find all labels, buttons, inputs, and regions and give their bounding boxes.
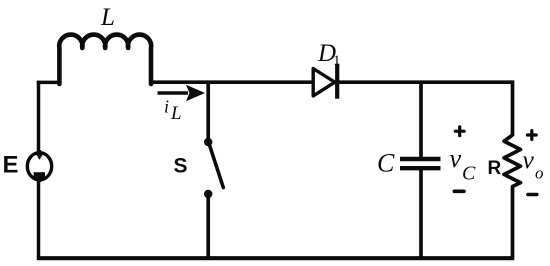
- label vC with polarity: [450, 127, 477, 192]
- diode D1: [313, 64, 337, 99]
- wire: top horizontal from inductor to diode anode: [149, 80, 312, 84]
- label iL: [164, 97, 182, 125]
- node: junction of switch branch on top wire: [206, 82, 210, 142]
- wire: right vertical from top-right corner to resistor top: [511, 80, 515, 136]
- svg-text:1: 1: [333, 53, 341, 69]
- label D1: [317, 40, 341, 69]
- voltage source E: [27, 150, 51, 182]
- svg-text:S: S: [174, 155, 188, 178]
- capacitor C: [400, 159, 441, 258]
- current arrow iL: [158, 85, 206, 101]
- label C: [377, 149, 395, 178]
- svg-text:E: E: [3, 152, 19, 179]
- svg-text:C: C: [377, 149, 395, 178]
- wire: top horizontal from diode cathode to top-right corner: [337, 80, 513, 84]
- switch S: [204, 138, 223, 258]
- label L: [100, 4, 115, 31]
- svg-text:o: o: [535, 164, 544, 183]
- label vo with polarity: [523, 131, 544, 195]
- label E: [3, 152, 19, 179]
- svg-text:v: v: [523, 145, 535, 174]
- wire: bottom rail: [37, 256, 515, 260]
- svg-text:C: C: [462, 163, 476, 185]
- svg-text:L: L: [100, 4, 115, 31]
- wire: horizontal step from left vertical to inductor left leg: [37, 81, 61, 85]
- svg-text:L: L: [170, 103, 182, 124]
- wire: left vertical from top-left corner to source E top: [37, 81, 41, 153]
- label R: [488, 158, 502, 179]
- svg-text:R: R: [488, 158, 502, 179]
- svg-text:v: v: [450, 144, 462, 173]
- wire: left vertical from source E bottom to bottom rail: [37, 180, 41, 258]
- wire: capacitor branch upper (junction on top wire to top plate): [419, 82, 423, 158]
- resistor R: [504, 135, 521, 258]
- inductor L: [59, 35, 151, 84]
- svg-text:i: i: [164, 97, 169, 117]
- label S: [174, 155, 188, 178]
